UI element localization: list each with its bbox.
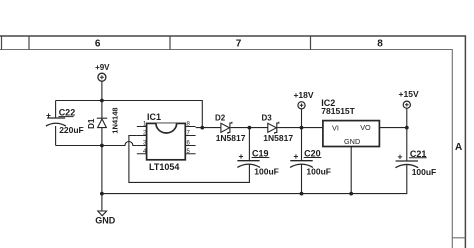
svg-text:VI: VI [332, 123, 339, 132]
svg-text:LT1054: LT1054 [149, 162, 179, 172]
svg-text:IC1: IC1 [147, 112, 161, 122]
svg-text:D3: D3 [262, 114, 273, 123]
svg-text:C19: C19 [252, 148, 269, 158]
svg-text:100uF: 100uF [306, 167, 331, 177]
svg-text:1N4148: 1N4148 [111, 107, 120, 133]
svg-text:+15V: +15V [399, 89, 419, 99]
svg-text:781515T: 781515T [321, 106, 355, 116]
svg-text:+9V: +9V [95, 63, 110, 72]
svg-text:8: 8 [377, 38, 383, 49]
svg-text:C22: C22 [59, 108, 76, 118]
svg-text:D1: D1 [87, 118, 96, 129]
svg-text:6: 6 [95, 38, 101, 49]
svg-text:7: 7 [236, 38, 242, 49]
svg-text:A: A [455, 142, 462, 153]
svg-text:GND: GND [344, 137, 360, 146]
svg-text:1N5817: 1N5817 [216, 133, 246, 143]
svg-text:C20: C20 [304, 148, 321, 158]
svg-text:D2: D2 [215, 114, 226, 123]
svg-text:100uF: 100uF [412, 167, 437, 177]
svg-text:C21: C21 [410, 149, 427, 159]
svg-text:GND: GND [95, 215, 116, 225]
svg-text:1N5817: 1N5817 [263, 133, 293, 143]
svg-text:220uF: 220uF [59, 125, 84, 135]
svg-text:100uF: 100uF [254, 167, 279, 177]
svg-text:VO: VO [360, 123, 371, 132]
svg-text:+18V: +18V [293, 90, 313, 100]
